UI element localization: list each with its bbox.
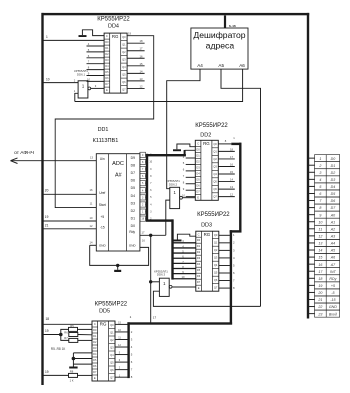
svg-text:Q6: Q6	[214, 278, 218, 282]
svg-text:23: 23	[317, 312, 322, 316]
svg-text:12: 12	[90, 224, 93, 228]
bus: ADC data outputs thick vertical	[146, 154, 153, 221]
adc DD1 body	[96, 154, 140, 251]
svg-text:D3: D3	[331, 178, 336, 182]
ground bar for DD5 inputs	[69, 367, 77, 369]
bus: left vertical bus	[41, 13, 43, 385]
svg-text:A4: A4	[330, 242, 335, 246]
svg-text:5: 5	[319, 185, 321, 189]
label КР555ЛЛ1 DD6.3	[154, 269, 168, 276]
resistor R5	[61, 324, 92, 335]
wire: bus line 10 to DD6.1 input 1	[44, 78, 79, 82]
svg-text:16: 16	[318, 263, 322, 267]
svg-text:13: 13	[140, 77, 143, 81]
svg-text:Q5: Q5	[213, 180, 217, 184]
svg-text:C: C	[198, 232, 200, 236]
wire: DD2 Q0 to output data bus	[218, 136, 241, 145]
svg-text:12: 12	[230, 193, 233, 197]
strobe tap symbol (bus take-off bar)	[173, 144, 195, 151]
svg-text:RG: RG	[100, 322, 107, 327]
svg-text:D5: D5	[131, 186, 135, 190]
svg-text:15: 15	[318, 256, 322, 260]
svg-text:1: 1	[319, 157, 321, 161]
svg-text:13: 13	[230, 185, 233, 189]
svg-text:D7: D7	[197, 280, 201, 284]
svg-text:1 К: 1 К	[70, 378, 74, 382]
svg-text:Q2: Q2	[110, 338, 114, 342]
svg-text:D9: D9	[131, 156, 135, 160]
strobe tap symbol (bus take-off bar)	[79, 30, 105, 37]
DD4 input stubs D1-D7 with pin numbers	[87, 42, 105, 81]
svg-text:C: C	[94, 322, 96, 326]
ground symbol	[114, 265, 121, 272]
svg-text:19: 19	[45, 370, 49, 374]
svg-text:D6: D6	[93, 364, 97, 368]
svg-text:A3: A3	[330, 235, 335, 239]
svg-text:D5: D5	[331, 192, 336, 196]
svg-text:A5: A5	[330, 249, 335, 253]
svg-text:Q2: Q2	[213, 157, 217, 161]
svg-text:D1: D1	[131, 216, 135, 220]
svg-text:D0: D0	[196, 147, 200, 151]
svg-text:18: 18	[230, 147, 233, 151]
svg-text:A6: A6	[330, 256, 335, 260]
address decoder U-DC box	[191, 28, 248, 69]
svg-text:15: 15	[230, 170, 233, 174]
svg-text:Q5: Q5	[214, 270, 218, 274]
svg-text:17: 17	[140, 47, 143, 51]
svg-text:3: 3	[319, 171, 321, 175]
svg-text:Q5: Q5	[122, 72, 126, 76]
svg-text:14: 14	[90, 241, 93, 245]
svg-text:16: 16	[230, 162, 233, 166]
svg-text:КР555ИР22: КР555ИР22	[97, 17, 130, 23]
svg-text:-15: -15	[330, 298, 335, 302]
svg-text:D5: D5	[105, 70, 109, 74]
bus: bottom thick horizontal	[127, 322, 232, 324]
svg-text:17: 17	[230, 155, 233, 159]
svg-text:14: 14	[140, 69, 143, 73]
connector stubs to right bus	[309, 158, 315, 313]
svg-text:6: 6	[319, 192, 321, 196]
label КР555ЛЛ1 DD6.1	[74, 69, 88, 76]
svg-text:D1: D1	[93, 334, 97, 338]
wire: DD6.1 output to DD4 E pin	[91, 84, 104, 88]
svg-text:A4: A4	[197, 63, 203, 68]
svg-text:D3: D3	[196, 165, 200, 169]
svg-text:18: 18	[46, 317, 50, 321]
svg-text:D0: D0	[93, 328, 97, 332]
wire: bus line 20 to DD1 Uref	[44, 193, 97, 195]
strobe tap symbol (bus take-off bar)	[174, 234, 196, 241]
svg-text:-15: -15	[100, 226, 105, 230]
svg-text:Q0: Q0	[110, 323, 114, 327]
svg-text:D1: D1	[196, 153, 200, 157]
wire: DD5 D4-D6 inputs to ground	[72, 353, 92, 367]
wire: decoder A6 line	[75, 69, 243, 101]
svg-text:20: 20	[45, 188, 49, 192]
DD3 input taps from thick bus	[173, 239, 196, 279]
wire: DD1 Rdy pin 17	[140, 231, 166, 237]
svg-text:D1: D1	[331, 164, 336, 168]
svg-text:Q0: Q0	[213, 142, 217, 146]
svg-text:R6: R6	[64, 330, 68, 334]
svg-text:Start: Start	[99, 203, 106, 207]
svg-text:19: 19	[45, 329, 49, 333]
svg-text:21: 21	[45, 224, 49, 228]
svg-text:Q7: Q7	[213, 195, 217, 199]
svg-text:12: 12	[140, 84, 143, 88]
svg-text:11: 11	[319, 227, 323, 231]
svg-text:D8: D8	[131, 164, 135, 168]
svg-text:R7: R7	[64, 336, 68, 340]
svg-text:D2: D2	[197, 250, 201, 254]
connector X1 pin table	[315, 155, 340, 318]
svg-text:D2: D2	[196, 159, 200, 163]
svg-text:RG: RG	[112, 34, 119, 39]
svg-text:10: 10	[90, 216, 93, 220]
register DD3 body	[196, 231, 219, 291]
svg-text:D3: D3	[93, 346, 97, 350]
svg-text:D5: D5	[197, 268, 201, 272]
svg-text:Q2: Q2	[122, 50, 126, 54]
svg-text:D2: D2	[331, 171, 336, 175]
svg-text:адреса: адреса	[206, 41, 235, 51]
svg-text:A0: A0	[330, 213, 335, 217]
svg-text:DD4: DD4	[108, 23, 119, 29]
svg-text:К1113ПВ1: К1113ПВ1	[93, 138, 119, 144]
svg-text:Q1: Q1	[122, 42, 126, 46]
svg-text:14: 14	[230, 178, 233, 182]
resistor R8	[44, 369, 93, 382]
svg-text:A6: A6	[239, 63, 245, 68]
label DD5 КР555ИР22	[95, 302, 128, 315]
wire: bus line 18 to DD5 C pin	[44, 323, 93, 325]
DD3 output taps to thick bus	[219, 233, 235, 290]
resistor R7	[61, 335, 92, 343]
wire: DD4 Q0 output to DD1 Start pin (net)	[55, 32, 154, 208]
DD4 output stubs Q1-Q7 with pin numbers	[127, 39, 145, 88]
svg-text:17: 17	[142, 231, 145, 235]
svg-text:D0: D0	[131, 224, 135, 228]
svg-text:Q7: Q7	[110, 375, 114, 379]
svg-text:20: 20	[317, 291, 322, 295]
wire: input from AFNC with arrow	[11, 158, 97, 164]
svg-text:Q4: Q4	[213, 172, 217, 176]
DD2 input stubs D1-D7	[182, 155, 195, 198]
svg-text:Вход: Вход	[329, 312, 337, 316]
svg-text:13: 13	[90, 156, 93, 160]
wire: bus to address decoder (11 lines)	[224, 16, 226, 29]
wire: DD6.3 input 2 from decoder A5	[153, 291, 260, 306]
svg-text:D3: D3	[197, 256, 201, 260]
svg-text:E: E	[106, 88, 108, 92]
svg-text:E: E	[94, 376, 96, 380]
svg-text:КР555ИР22: КР555ИР22	[195, 123, 228, 129]
svg-text:A1: A1	[330, 220, 335, 224]
svg-text:+5: +5	[331, 284, 335, 288]
svg-text:A#: A#	[115, 172, 122, 178]
wire: DD6.3 output to DD3 E pin	[172, 286, 196, 288]
svg-text:D2: D2	[105, 52, 109, 56]
svg-text:D1: D1	[105, 46, 109, 50]
svg-text:D0: D0	[105, 40, 109, 44]
svg-text:E: E	[198, 286, 200, 290]
svg-text:ADC: ADC	[112, 161, 124, 167]
bus: thick branch to DD2 inputs	[146, 150, 196, 156]
svg-text:D4: D4	[196, 171, 200, 175]
register DD2 body	[195, 140, 218, 200]
svg-text:16: 16	[140, 54, 143, 58]
svg-text:GND: GND	[129, 243, 137, 247]
svg-text:Q3: Q3	[214, 255, 218, 259]
label DD3 КР555ИР22	[197, 212, 230, 228]
svg-text:A2: A2	[330, 227, 335, 231]
wire: decoder A4 line to DD6.2 input 1	[167, 69, 200, 189]
svg-text:RG: RG	[204, 232, 211, 237]
or-gate DD6.1	[78, 81, 91, 98]
svg-text:R8: R8	[70, 369, 74, 373]
svg-text:Дешифратор: Дешифратор	[193, 30, 245, 40]
svg-text:Q3: Q3	[122, 57, 126, 61]
svg-text:D7: D7	[93, 370, 97, 374]
svg-text:19: 19	[45, 215, 49, 219]
svg-text:13: 13	[318, 242, 322, 246]
svg-text:D5: D5	[93, 358, 97, 362]
svg-text:Q7: Q7	[122, 87, 126, 91]
svg-text:D4: D4	[197, 262, 201, 266]
svg-text:Q6: Q6	[110, 368, 114, 372]
svg-text:Uref: Uref	[99, 191, 105, 195]
svg-text:Q5: Q5	[110, 360, 114, 364]
svg-text:Q1: Q1	[214, 240, 218, 244]
svg-text:19: 19	[318, 284, 322, 288]
svg-text:D5: D5	[196, 177, 200, 181]
bus: thick corner to DD3 inputs	[146, 219, 174, 279]
svg-text:18: 18	[140, 39, 143, 43]
resistor R6	[64, 330, 92, 336]
DD5 output taps to thick bus	[115, 322, 133, 380]
register DD4 body	[104, 33, 127, 93]
svg-text:16: 16	[142, 239, 145, 243]
svg-text:Q4: Q4	[110, 353, 114, 357]
wire: bus line 21 to DD1 -15	[44, 228, 97, 230]
svg-text:DD2: DD2	[200, 132, 211, 138]
svg-text:Q4: Q4	[122, 65, 126, 69]
svg-text:10: 10	[318, 220, 322, 224]
svg-text:2: 2	[318, 164, 321, 168]
svg-text:-5: -5	[331, 291, 334, 295]
svg-text:от АФНЧ: от АФНЧ	[14, 150, 34, 156]
svg-text:Q4: Q4	[214, 263, 218, 267]
svg-text:Q3: Q3	[213, 165, 217, 169]
svg-text:D6: D6	[331, 199, 336, 203]
svg-text:D1: D1	[197, 244, 201, 248]
svg-text:10: 10	[182, 275, 185, 279]
or-gate DD6.3	[159, 278, 172, 296]
svg-text:9: 9	[319, 213, 321, 217]
wire: decoder A5 line	[221, 69, 261, 306]
svg-text:D4: D4	[131, 194, 135, 198]
svg-text:10: 10	[46, 77, 50, 81]
svg-text:19: 19	[128, 32, 131, 36]
wire: DD6.2 input 2 to Rdy net	[166, 200, 170, 235]
wire: DD6.1 input 2 from decoder A6	[74, 89, 78, 102]
svg-text:8: 8	[319, 206, 321, 210]
svg-text:D6: D6	[131, 179, 135, 183]
svg-text:КР555ИР22: КР555ИР22	[95, 302, 128, 308]
svg-text:D6: D6	[197, 274, 201, 278]
or-gate DD6.2	[170, 187, 183, 208]
svg-text:Uin: Uin	[100, 157, 105, 161]
bus: right vertical bus (to connector)	[307, 13, 309, 319]
wire: DD1 GND pins to ground	[90, 239, 149, 267]
svg-text:GND: GND	[99, 243, 107, 247]
adc left pin numbers	[90, 156, 94, 245]
wire: Rdy net vertical to DD6.3 and bottom bus line 17	[149, 235, 152, 323]
svg-text:DD3: DD3	[201, 222, 212, 228]
wire: bus line 1 to DD4 D0	[44, 39, 105, 41]
wire: DD6.2 output to DD2 E pin	[183, 197, 196, 199]
svg-text:Q6: Q6	[122, 80, 126, 84]
svg-text:Q2: Q2	[214, 248, 218, 252]
svg-text:Q1: Q1	[110, 330, 114, 334]
wire: Rdy net to DD6.3 input 1	[151, 281, 160, 283]
svg-text:15: 15	[140, 62, 143, 66]
svg-text:Q3: Q3	[110, 345, 114, 349]
svg-text:21: 21	[317, 298, 322, 302]
svg-text:D0: D0	[331, 157, 336, 161]
svg-text:GND: GND	[329, 305, 337, 309]
bus: jog left	[230, 230, 242, 232]
svg-text:Q6: Q6	[213, 187, 217, 191]
svg-text:DD6.3: DD6.3	[157, 273, 166, 277]
svg-text:INT: INT	[330, 270, 337, 274]
svg-text:D4: D4	[93, 352, 97, 356]
DD2 output stubs Q1-Q7	[218, 147, 235, 196]
svg-text:RG: RG	[203, 141, 210, 146]
svg-text:11: 11	[90, 201, 93, 205]
svg-text:D7: D7	[196, 189, 200, 193]
svg-text:14: 14	[318, 249, 322, 253]
svg-text:D7: D7	[105, 82, 109, 86]
svg-text:D2: D2	[131, 209, 135, 213]
svg-text:D4: D4	[331, 185, 336, 189]
svg-text:DD1: DD1	[98, 127, 109, 133]
svg-text:DD5: DD5	[99, 308, 110, 314]
wire: bus line 19 to DD1 +5	[44, 220, 97, 222]
svg-text:Q0: Q0	[122, 35, 126, 39]
svg-text:DD6.1: DD6.1	[77, 72, 86, 76]
svg-text:D2: D2	[93, 340, 97, 344]
svg-text:Q7: Q7	[214, 285, 218, 289]
svg-text:R5..R8 1К: R5..R8 1К	[51, 347, 66, 351]
label КР555ЛЛ1 DD6.2	[166, 179, 180, 186]
svg-text:A5: A5	[218, 63, 224, 68]
svg-text:16: 16	[90, 188, 93, 192]
svg-text:1: 1	[46, 35, 48, 39]
svg-text:C: C	[106, 34, 108, 38]
bus: top horizontal power/address bus	[42, 13, 310, 15]
bus: DD3 outputs thick vertical	[230, 230, 232, 324]
svg-text:D3: D3	[105, 58, 109, 62]
wire: bus line 19 to pull-up resistors	[44, 333, 63, 337]
svg-text:DD6.2: DD6.2	[169, 182, 178, 186]
svg-text:RDy: RDy	[329, 277, 336, 281]
svg-text:КР555ИР22: КР555ИР22	[197, 212, 230, 218]
svg-text:C: C	[197, 141, 199, 145]
svg-text:17: 17	[153, 316, 157, 320]
svg-text:Q0: Q0	[214, 233, 218, 237]
bus: DD5 outputs thick vertical	[127, 322, 129, 378]
svg-text:Rdy: Rdy	[129, 230, 135, 234]
svg-text:22: 22	[317, 305, 322, 309]
adc right pin boxes D9..D0	[140, 152, 146, 221]
svg-text:+5: +5	[100, 215, 104, 219]
svg-text:D3: D3	[131, 201, 135, 205]
label DD2 КР555ИР22	[195, 123, 228, 138]
svg-text:D6: D6	[105, 76, 109, 80]
svg-text:18: 18	[318, 277, 322, 281]
svg-text:4: 4	[319, 178, 321, 182]
svg-text:D0: D0	[197, 238, 201, 242]
svg-text:Q1: Q1	[213, 150, 217, 154]
svg-text:12: 12	[318, 235, 322, 239]
svg-text:D4: D4	[105, 64, 109, 68]
svg-text:D7: D7	[131, 171, 135, 175]
svg-text:E: E	[197, 195, 199, 199]
register DD5 body	[92, 321, 115, 381]
svg-text:D6: D6	[196, 183, 200, 187]
bus: DD2 outputs thick vertical	[239, 143, 241, 233]
